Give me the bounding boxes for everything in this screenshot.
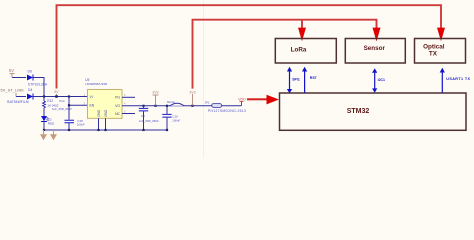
pin PG stub xyxy=(122,96,135,98)
power port VDD xyxy=(238,97,246,105)
svg-text:SPI1: SPI1 xyxy=(292,78,300,82)
svg-text:VDD: VDD xyxy=(238,97,246,101)
capacitor C14 xyxy=(52,99,74,123)
blue arrow USART1 TX (up) xyxy=(440,68,471,93)
power port 5V_ST_LINK xyxy=(1,89,25,97)
power port 3V3 (fed by red wire) xyxy=(189,90,195,105)
wire cap to ground rail xyxy=(68,123,70,130)
svg-text:PH127SMD2NG-2513: PH127SMD2NG-2513 xyxy=(208,109,246,113)
svg-text:TX: TX xyxy=(429,50,438,57)
red branch arrow into LoRa xyxy=(301,20,303,29)
block Sensor xyxy=(345,39,405,64)
wire VO output rail xyxy=(122,105,242,107)
svg-text:VI: VI xyxy=(90,95,93,99)
blue arrow RST (up) xyxy=(302,67,318,93)
svg-text:PG: PG xyxy=(115,96,120,100)
svg-text:C9: C9 xyxy=(141,114,145,118)
red wire top line (5V to Optical TX) xyxy=(57,5,442,88)
ground symbol 1 xyxy=(40,130,47,140)
power port 3V3 (bar) xyxy=(152,91,158,106)
svg-text:RED: RED xyxy=(48,121,55,125)
node junction dots on 5V rail xyxy=(43,95,45,97)
svg-text:D6: D6 xyxy=(28,69,32,73)
ferrite bead MH1A xyxy=(167,100,184,106)
svg-text:5V_ST_LINK: 5V_ST_LINK xyxy=(1,89,25,93)
capacitor C10 xyxy=(162,106,180,130)
svg-text:STM32: STM32 xyxy=(347,108,370,115)
svg-text:5V: 5V xyxy=(54,90,59,94)
node dots on ground rail xyxy=(43,129,45,131)
svg-text:STPS2L30A: STPS2L30A xyxy=(28,83,48,87)
ground symbol 2 xyxy=(50,130,57,140)
pin GND stubs xyxy=(99,118,106,130)
svg-text:NC: NC xyxy=(115,112,120,116)
diode D4 xyxy=(27,88,33,100)
wire input cap branch xyxy=(68,97,70,120)
wire R12 branch xyxy=(43,97,45,102)
svg-text:USART1 TX: USART1 TX xyxy=(446,77,470,81)
blue bus arrow I2C1 (double headed) xyxy=(372,68,385,93)
svg-text:I2C1: I2C1 xyxy=(378,78,385,82)
svg-text:LD39050PU33R: LD39050PU33R xyxy=(85,82,108,86)
svg-text:GND: GND xyxy=(104,109,108,117)
svg-text:LoRa: LoRa xyxy=(291,46,307,53)
wire 5V input rail top xyxy=(12,77,26,79)
capacitor C9 xyxy=(139,106,159,130)
wire ST-LINK to D4 xyxy=(16,96,26,98)
ground rail xyxy=(44,129,167,131)
svg-text:100nF: 100nF xyxy=(172,119,180,123)
red arrowhead into Optical TX xyxy=(437,28,445,42)
thick red arrow VDD to STM32 xyxy=(247,95,279,105)
svg-text:D4: D4 xyxy=(28,88,32,92)
wire EN feed xyxy=(69,104,88,106)
diode D6 xyxy=(27,69,33,80)
svg-text:1uF_X5R_0603: 1uF_X5R_0603 xyxy=(139,119,159,123)
jumper JP1 xyxy=(205,100,247,112)
svg-text:EN: EN xyxy=(90,104,95,108)
svg-text:Sensor: Sensor xyxy=(364,45,386,52)
node junction EN branch xyxy=(68,104,70,106)
pin NC stub xyxy=(122,113,135,115)
svg-text:Optical: Optical xyxy=(423,43,445,50)
svg-text:MH1A: MH1A xyxy=(167,100,175,104)
svg-text:5V: 5V xyxy=(9,68,14,73)
svg-text:JP1: JP1 xyxy=(205,100,210,104)
svg-text:RST: RST xyxy=(310,76,318,80)
red wire second line (3V3 to LoRa / Sensor) xyxy=(193,20,377,89)
svg-text:BAT54WFILM: BAT54WFILM xyxy=(7,100,29,104)
svg-text:1uF_X5R_0603: 1uF_X5R_0603 xyxy=(52,107,72,111)
block STM32 xyxy=(280,93,467,130)
LED D2 xyxy=(41,116,55,125)
regulator U5 LD39050PU33R xyxy=(85,78,122,118)
wire main 5V rail into regulator VI xyxy=(33,96,88,98)
block Optical TX xyxy=(415,39,466,64)
svg-text:3V3: 3V3 xyxy=(189,90,195,94)
wire LED to ground rail xyxy=(43,122,45,131)
svg-text:3V3: 3V3 xyxy=(152,91,158,95)
svg-text:100nF: 100nF xyxy=(77,122,85,126)
red arrowhead into Sensor xyxy=(373,28,381,42)
svg-text:VO: VO xyxy=(115,104,120,108)
svg-text:GND: GND xyxy=(97,109,101,117)
wire D6 cathode to rail xyxy=(33,78,44,97)
block LoRa xyxy=(275,39,336,64)
svg-text:C14: C14 xyxy=(59,99,65,103)
power port 5V (top-left) xyxy=(9,68,15,78)
wire R12 to LED xyxy=(43,108,45,116)
node junctions on output rail xyxy=(142,105,144,107)
blue bus arrow SPI1 (double headed) xyxy=(287,67,300,94)
power port 5V (above rail, fed by red wire) xyxy=(54,90,59,98)
resistor R12 xyxy=(43,99,59,108)
